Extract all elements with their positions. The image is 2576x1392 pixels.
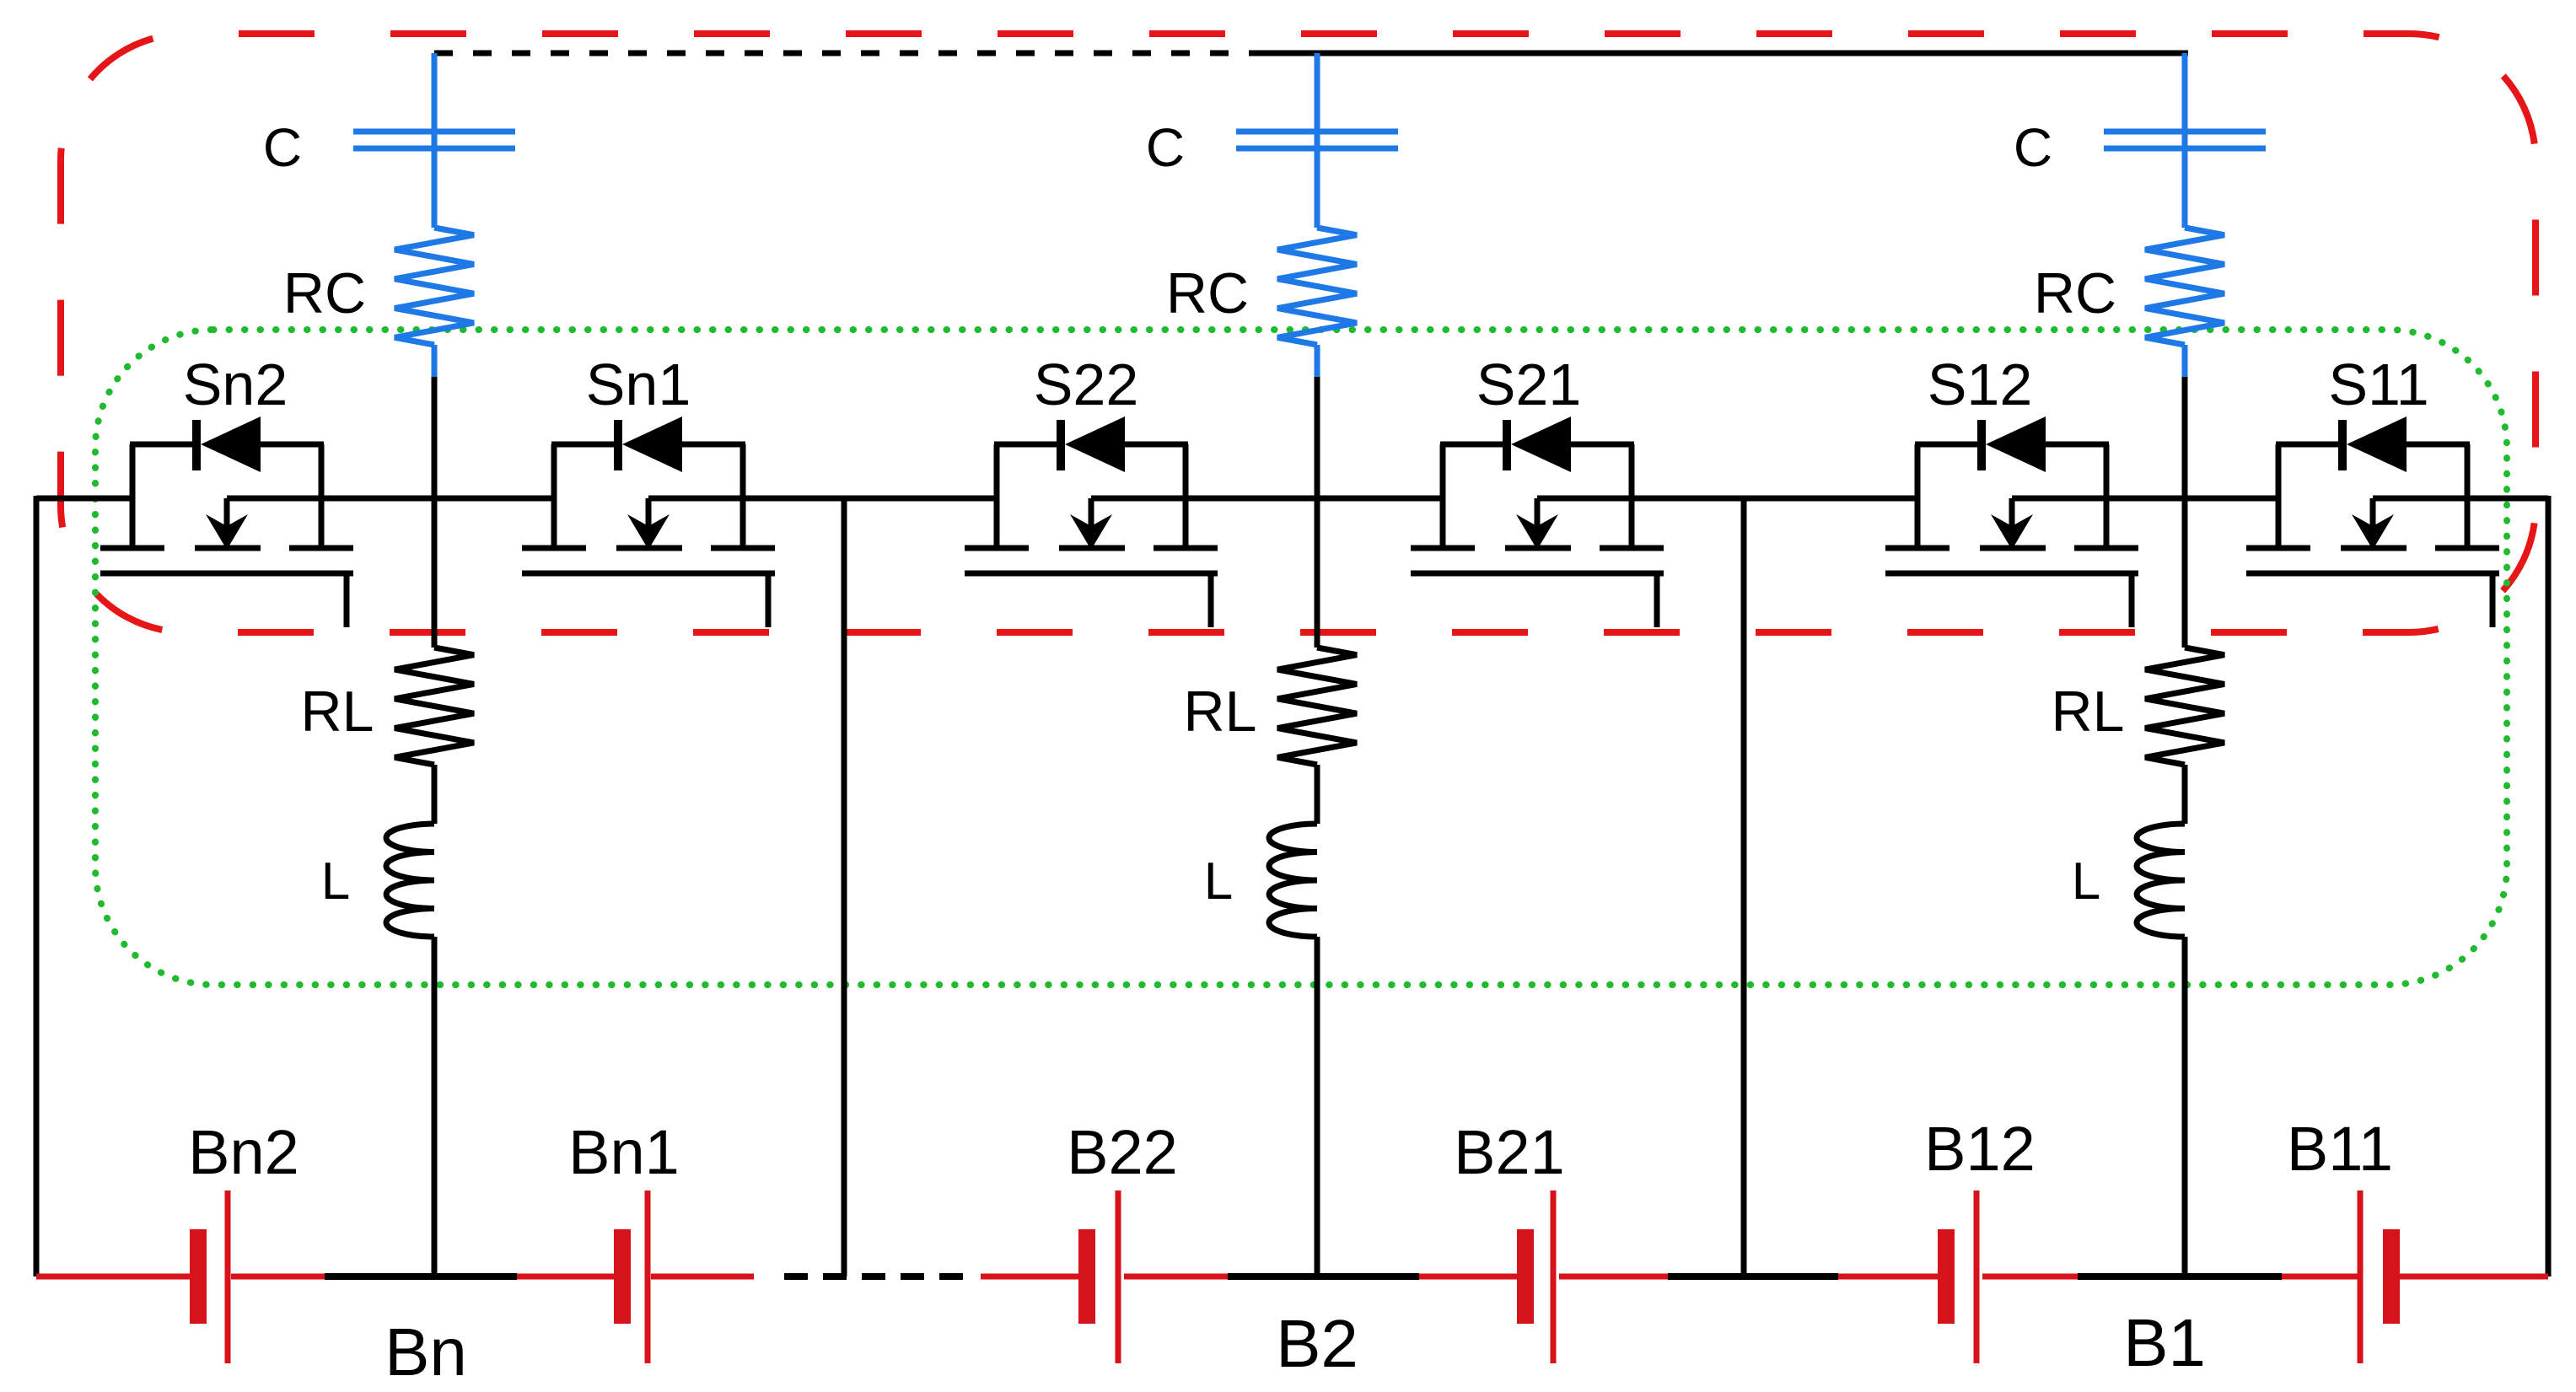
svg-text:Sn1: Sn1 — [586, 352, 691, 417]
svg-text:L: L — [321, 852, 350, 911]
svg-text:B11: B11 — [2287, 1114, 2393, 1184]
svg-text:B12: B12 — [1924, 1114, 2036, 1184]
svg-text:S11: S11 — [2328, 352, 2428, 417]
svg-text:RL: RL — [1184, 680, 1257, 744]
svg-text:Bn2: Bn2 — [188, 1117, 299, 1187]
svg-text:S22: S22 — [1034, 352, 1139, 417]
svg-text:B21: B21 — [1454, 1117, 1565, 1187]
svg-text:Sn2: Sn2 — [183, 352, 288, 417]
svg-text:S12: S12 — [1928, 352, 2033, 417]
svg-text:RC: RC — [283, 261, 366, 325]
svg-text:C: C — [263, 117, 302, 178]
svg-text:Bn1: Bn1 — [568, 1117, 680, 1187]
svg-text:L: L — [1204, 852, 1233, 911]
svg-text:S21: S21 — [1476, 352, 1582, 417]
svg-text:RC: RC — [1166, 261, 1249, 325]
svg-text:RL: RL — [2052, 680, 2125, 744]
svg-text:Bn: Bn — [385, 1314, 467, 1389]
svg-text:B2: B2 — [1276, 1306, 1358, 1381]
svg-text:C: C — [1146, 117, 1185, 178]
svg-text:C: C — [2014, 117, 2052, 178]
svg-text:B22: B22 — [1067, 1117, 1178, 1187]
svg-text:L: L — [2072, 852, 2100, 911]
svg-text:B1: B1 — [2123, 1305, 2206, 1380]
svg-text:RL: RL — [301, 680, 374, 744]
svg-text:RC: RC — [2034, 261, 2116, 325]
